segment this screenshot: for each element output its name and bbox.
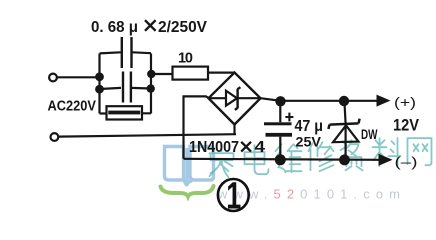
svg-text:(–): (–) (395, 154, 418, 170)
svg-text:2/250V: 2/250V (158, 19, 207, 36)
svg-text:4: 4 (255, 139, 266, 156)
svg-text:AC220V: AC220V (48, 99, 97, 115)
svg-text:10: 10 (178, 51, 193, 67)
svg-text:DW: DW (361, 127, 378, 142)
svg-text:25V: 25V (296, 135, 322, 150)
svg-text:0. 68 μ: 0. 68 μ (91, 19, 138, 36)
svg-text:1N4007: 1N4007 (189, 139, 239, 156)
svg-text:(+): (+) (394, 94, 416, 110)
svg-text:12V: 12V (393, 117, 419, 135)
svg-text:1: 1 (226, 176, 241, 218)
svg-text:47 μ: 47 μ (295, 118, 324, 135)
svg-text:www.520101.com: www.520101.com (217, 187, 400, 202)
